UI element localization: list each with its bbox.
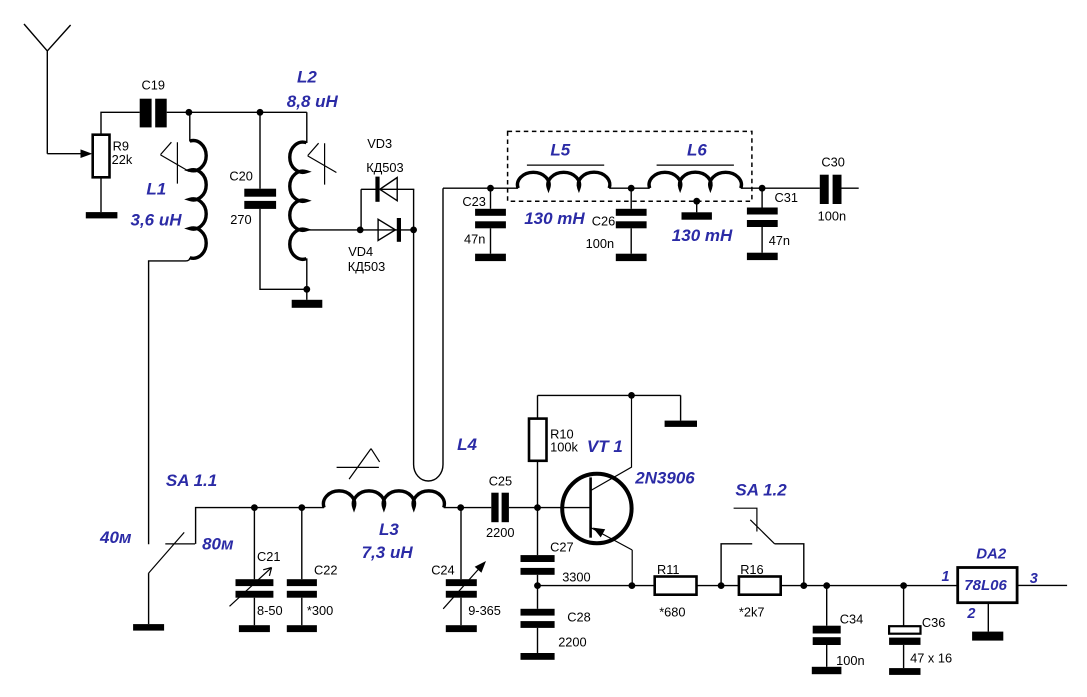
ground C36 <box>889 668 920 675</box>
svg-text:L4: L4 <box>457 435 477 454</box>
svg-text:100n: 100n <box>836 653 864 668</box>
ground R9 <box>86 212 118 218</box>
wire VD3 right leg <box>413 189 415 230</box>
svg-text:C25: C25 <box>489 474 512 489</box>
diode VD4 <box>360 218 413 242</box>
svg-text:1: 1 <box>942 569 950 585</box>
node junction C27/C28 <box>534 582 541 589</box>
svg-text:8,8 uH: 8,8 uH <box>287 92 339 111</box>
svg-text:7,3 uH: 7,3 uH <box>362 543 414 562</box>
svg-text:C23: C23 <box>462 194 485 209</box>
capacitor C27 <box>521 508 555 586</box>
svg-text:L1: L1 <box>146 180 166 199</box>
svg-text:C30: C30 <box>821 155 844 170</box>
inductor L5 <box>518 165 610 188</box>
resistor R10 <box>529 395 547 507</box>
ground SA1.1 <box>133 624 164 631</box>
wire C30 output <box>842 187 859 189</box>
svg-text:C22: C22 <box>314 563 337 578</box>
L3 adjustment arrow <box>337 449 380 480</box>
svg-text:C31: C31 <box>775 190 798 205</box>
ground C31 <box>747 253 778 260</box>
L2 adjustment arrow <box>308 143 337 184</box>
svg-text:R16: R16 <box>740 562 763 577</box>
svg-text:L2: L2 <box>297 68 317 87</box>
node junction C26 <box>628 185 635 192</box>
svg-text:КД503: КД503 <box>348 259 385 274</box>
svg-text:9-365: 9-365 <box>468 603 501 618</box>
svg-text:100n: 100n <box>586 236 614 251</box>
wire L1 bottom to SA1.1 contact 40m <box>149 258 190 545</box>
svg-text:L6: L6 <box>687 141 707 160</box>
wire DA2 ground pin <box>987 603 989 632</box>
wire C20 bottom to L2 bottom <box>260 209 307 289</box>
svg-text:C21: C21 <box>257 549 280 564</box>
R9 wiper arrow <box>81 149 93 158</box>
svg-text:2: 2 <box>966 606 975 622</box>
capacitor C25 <box>491 493 509 523</box>
ground top right <box>665 421 697 427</box>
node junction diode left <box>357 227 364 234</box>
ground C34 <box>812 667 842 674</box>
wire R16 to DA2 <box>781 585 958 587</box>
wire DA2 output <box>1017 584 1067 586</box>
node junction C34 <box>823 582 830 589</box>
svg-text:2200: 2200 <box>558 635 586 650</box>
inductor L3 <box>323 491 444 508</box>
node junction R11/R16 <box>718 582 725 589</box>
wire C25 to base node <box>509 507 590 509</box>
svg-text:47n: 47n <box>464 232 485 247</box>
switch SA1.2 <box>721 508 804 585</box>
node junction at C19/L1 <box>186 109 193 116</box>
switch SA1.1 <box>149 532 196 573</box>
wire antenna to R9 wiper <box>47 153 81 155</box>
svg-text:130 mH: 130 mH <box>672 226 733 245</box>
shield box L5/L6 <box>508 131 752 201</box>
inductor L2 <box>306 112 308 289</box>
node junction C22 <box>298 504 305 511</box>
svg-text:C27: C27 <box>550 540 573 555</box>
capacitor C30 <box>820 175 842 204</box>
svg-text:47n: 47n <box>769 233 790 248</box>
ground C23 <box>475 254 506 261</box>
svg-text:*300: *300 <box>307 603 333 618</box>
svg-text:R11: R11 <box>657 562 680 577</box>
shield ground node <box>693 198 700 205</box>
ground C28 <box>521 653 555 660</box>
node junction C31 <box>759 185 766 192</box>
inductor L6 <box>649 165 741 188</box>
capacitor C36 electrolytic <box>889 586 920 669</box>
ground L2/C20 <box>292 289 323 308</box>
svg-text:VD3: VD3 <box>367 136 392 151</box>
svg-text:100k: 100k <box>550 440 578 455</box>
svg-text:47 x 16: 47 x 16 <box>910 651 952 666</box>
ground C24 <box>446 625 477 632</box>
resistor R11 <box>655 577 697 595</box>
svg-text:*2k7: *2k7 <box>739 605 765 620</box>
antenna WA1 <box>24 24 71 154</box>
node junction C21 <box>251 504 258 511</box>
wire bottom-left bus <box>196 508 325 544</box>
svg-text:SA 1.2: SA 1.2 <box>735 481 787 500</box>
svg-text:L5: L5 <box>550 141 570 160</box>
capacitor C34 <box>813 586 841 667</box>
wire L2 tap to diodes <box>306 229 360 231</box>
svg-text:VT 1: VT 1 <box>587 437 623 456</box>
svg-text:3300: 3300 <box>562 570 590 585</box>
svg-text:3,6 uH: 3,6 uH <box>131 211 183 230</box>
ground C26 <box>616 254 647 261</box>
svg-text:8-50: 8-50 <box>257 603 283 618</box>
wire filter bus <box>443 187 820 189</box>
node junction collector bus <box>628 392 635 399</box>
wire bottom bus left <box>538 585 655 587</box>
svg-text:40м: 40м <box>99 528 132 547</box>
svg-text:C19: C19 <box>142 78 165 93</box>
wire C19 to L2 top <box>167 111 307 113</box>
capacitor C22 <box>287 508 317 626</box>
svg-text:78L06: 78L06 <box>964 577 1007 594</box>
svg-text:100n: 100n <box>818 209 846 224</box>
wire top supply bus <box>538 395 681 420</box>
svg-text:C26: C26 <box>592 214 615 229</box>
potentiometer R9 <box>93 135 110 178</box>
svg-text:2N3906: 2N3906 <box>634 469 695 488</box>
capacitor C20 <box>244 189 276 209</box>
svg-text:DA2: DA2 <box>976 546 1007 563</box>
resistor R16 <box>739 577 781 595</box>
transistor VT1 <box>562 395 632 585</box>
wire R11 to R16 <box>697 585 739 587</box>
svg-text:C28: C28 <box>567 610 590 625</box>
wire L3 to C25 <box>444 507 492 509</box>
svg-text:C24: C24 <box>431 563 454 578</box>
svg-text:2200: 2200 <box>486 525 514 540</box>
svg-text:L3: L3 <box>379 520 399 539</box>
node junction base/C27 <box>534 504 541 511</box>
wire R9 bottom to ground <box>100 177 102 212</box>
ground shield <box>682 201 712 220</box>
capacitor C23 <box>475 188 506 254</box>
node junction R16 right <box>800 582 807 589</box>
svg-text:22k: 22k <box>112 152 133 167</box>
node junction C24 <box>457 504 464 511</box>
node junction emitter <box>629 582 636 589</box>
wire SA1.1 pole to ground <box>148 573 150 624</box>
capacitor C31 <box>747 188 778 253</box>
node junction L2 bottom <box>303 286 310 293</box>
ground C22 <box>287 625 317 632</box>
wire VD3 left leg <box>360 189 362 230</box>
ground C21 <box>239 625 270 632</box>
regulator DA2 <box>958 568 1017 603</box>
svg-text:VD4: VD4 <box>348 244 373 259</box>
node junction diode right <box>410 227 417 234</box>
capacitor C19 <box>140 99 167 128</box>
svg-text:270: 270 <box>230 212 251 227</box>
capacitor C21 trimmer <box>230 508 274 626</box>
capacitor C24 variable <box>443 508 486 626</box>
svg-text:80м: 80м <box>202 535 234 554</box>
svg-text:130 mH: 130 mH <box>524 209 585 228</box>
ground DA2 <box>972 632 1003 641</box>
svg-text:SA 1.1: SA 1.1 <box>166 471 217 490</box>
L1 adjustment arrow <box>161 142 190 183</box>
node junction C36 <box>900 582 907 589</box>
wire R9 top to C19 <box>101 112 140 134</box>
inductor L4 coupling loop <box>414 188 443 481</box>
svg-text:3: 3 <box>1030 571 1038 587</box>
svg-text:*680: *680 <box>659 605 685 620</box>
svg-text:C20: C20 <box>229 169 252 184</box>
node junction C23 <box>487 185 494 192</box>
capacitor C28 <box>521 586 555 653</box>
diode VD3 <box>361 177 414 202</box>
svg-text:КД503: КД503 <box>366 160 403 175</box>
wire C20 top <box>259 112 261 188</box>
inductor L1 <box>189 112 191 141</box>
capacitor C26 <box>616 188 647 254</box>
svg-text:C36: C36 <box>922 615 945 630</box>
svg-text:C34: C34 <box>840 612 863 627</box>
node junction at C20 top <box>257 109 264 116</box>
